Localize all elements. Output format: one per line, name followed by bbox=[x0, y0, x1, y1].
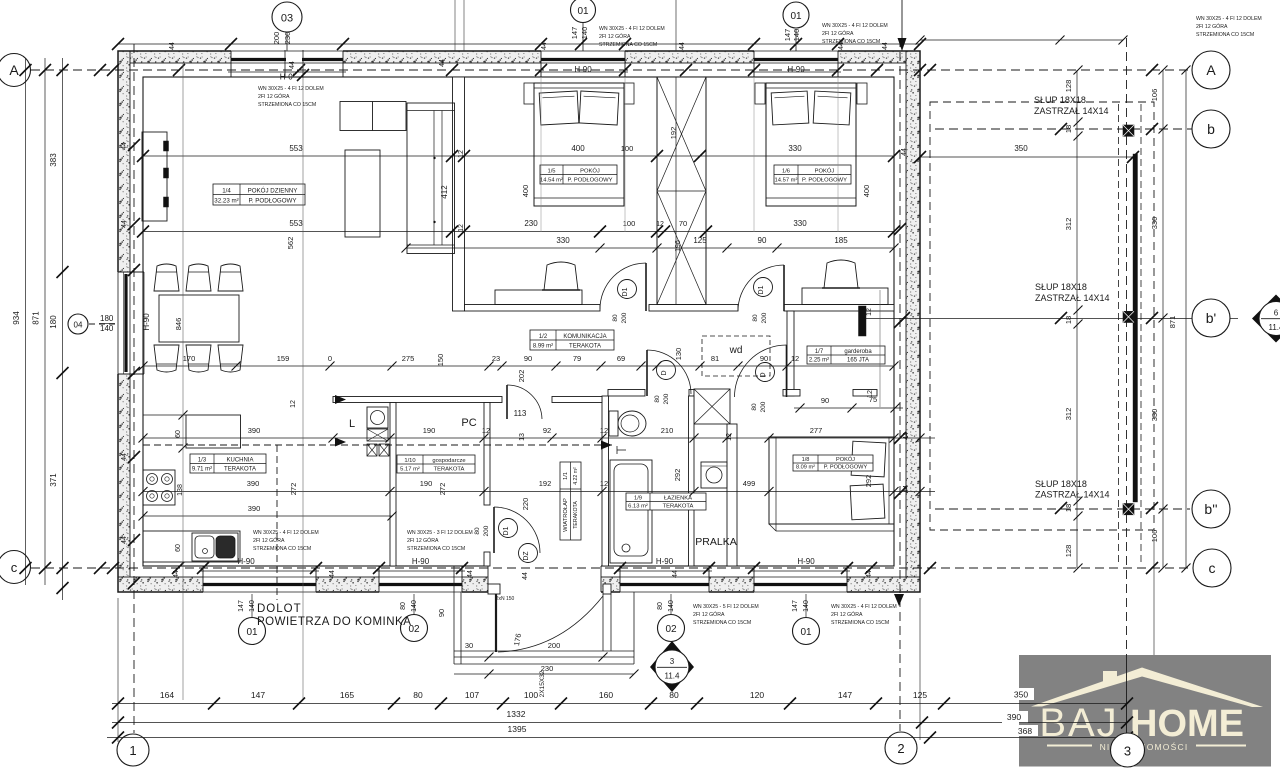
exterior wall stipple top band bbox=[118, 51, 920, 63]
svg-text:D1: D1 bbox=[622, 287, 629, 296]
svg-text:c: c bbox=[11, 560, 18, 575]
svg-text:330: 330 bbox=[793, 219, 807, 228]
svg-text:3: 3 bbox=[1124, 744, 1131, 759]
svg-text:12: 12 bbox=[482, 426, 490, 435]
kitchen east wall (gospodarcze west) bbox=[390, 403, 396, 567]
door D room 1/8 leaf and arc bbox=[786, 345, 788, 397]
svg-text:106: 106 bbox=[1150, 530, 1159, 543]
dim 350 porch top bbox=[920, 156, 1133, 158]
svg-text:STRZEMIONA CO 15CM: STRZEMIONA CO 15CM bbox=[693, 620, 751, 626]
svg-text:H-90: H-90 bbox=[787, 65, 805, 74]
svg-text:1332: 1332 bbox=[507, 709, 526, 719]
bottom dim row 3 bbox=[107, 737, 1140, 739]
svg-text:23: 23 bbox=[492, 354, 500, 363]
svg-text:2xN 150: 2xN 150 bbox=[496, 596, 515, 602]
svg-text:140: 140 bbox=[668, 600, 675, 612]
svg-text:b'': b'' bbox=[1204, 501, 1217, 517]
grid circle 3 bottom bbox=[1111, 733, 1145, 767]
svg-text:292: 292 bbox=[673, 469, 682, 482]
svg-text:2FI 12 GÓRA: 2FI 12 GÓRA bbox=[599, 33, 631, 40]
svg-text:192: 192 bbox=[669, 127, 678, 140]
svg-text:18: 18 bbox=[1064, 125, 1073, 133]
door D1 bedroom 1/6 leaf and arc bbox=[783, 265, 785, 311]
svg-text:100: 100 bbox=[524, 690, 538, 700]
kitchen sink double bowl bbox=[192, 533, 238, 561]
svg-text:125: 125 bbox=[913, 690, 927, 700]
room label 1/7 garderoba bbox=[807, 346, 885, 364]
bathroom east wall bbox=[689, 396, 695, 566]
svg-text:POKÓJ: POKÓJ bbox=[815, 168, 835, 175]
svg-text:4.22 m²: 4.22 m² bbox=[573, 467, 579, 485]
svg-text:553: 553 bbox=[289, 219, 303, 228]
svg-text:1/9: 1/9 bbox=[634, 496, 642, 502]
dim line y=516 kitchen bbox=[143, 515, 392, 517]
interior wall corridor north segment 2 bbox=[649, 305, 738, 312]
svg-text:1/2: 1/2 bbox=[539, 334, 548, 340]
bath tap bracket bbox=[616, 446, 618, 454]
svg-text:390: 390 bbox=[248, 426, 261, 435]
svg-text:WN 30X25 - 3 FI 12 DOLEM: WN 30X25 - 3 FI 12 DOLEM bbox=[407, 530, 473, 536]
svg-text:1/5: 1/5 bbox=[547, 169, 555, 175]
svg-text:390: 390 bbox=[248, 504, 261, 513]
svg-text:PC: PC bbox=[461, 417, 476, 429]
svg-text:934: 934 bbox=[12, 311, 21, 325]
svg-text:200: 200 bbox=[621, 312, 628, 323]
svg-text:SŁUP 18X18: SŁUP 18X18 bbox=[1035, 479, 1087, 489]
svg-text:292: 292 bbox=[864, 475, 873, 488]
svg-text:140: 140 bbox=[803, 600, 810, 612]
svg-text:12: 12 bbox=[791, 354, 799, 363]
window W3 H-90 bedroom 1/6 bbox=[754, 50, 838, 64]
svg-text:L: L bbox=[349, 418, 355, 430]
svg-text:HOME: HOME bbox=[1130, 703, 1244, 745]
svg-text:32.23 m²: 32.23 m² bbox=[214, 198, 238, 205]
svg-text:STRZEMIONA CO 15CM: STRZEMIONA CO 15CM bbox=[253, 546, 311, 552]
svg-text:80: 80 bbox=[612, 314, 619, 322]
svg-text:11.4: 11.4 bbox=[1269, 323, 1280, 332]
entry porch door jambs bbox=[488, 584, 500, 594]
gospodarcze east wall with door opening bbox=[484, 403, 490, 506]
svg-text:b: b bbox=[1207, 121, 1215, 137]
svg-text:18: 18 bbox=[1064, 316, 1073, 324]
dining chairs bottom row bbox=[154, 345, 179, 372]
svg-text:H-90: H-90 bbox=[656, 557, 674, 566]
svg-text:WN 30X25 - 4 FI 12 DOLEM: WN 30X25 - 4 FI 12 DOLEM bbox=[831, 604, 897, 610]
svg-text:147: 147 bbox=[838, 690, 852, 700]
svg-text:80: 80 bbox=[400, 602, 407, 610]
svg-text:44: 44 bbox=[289, 61, 296, 69]
svg-text:D1: D1 bbox=[758, 285, 765, 294]
svg-text:330: 330 bbox=[788, 144, 802, 153]
svg-text:D: D bbox=[661, 370, 668, 375]
svg-text:b': b' bbox=[1206, 310, 1216, 326]
svg-text:DZ: DZ bbox=[523, 551, 530, 561]
room label 1/8 POKOJ bbox=[793, 455, 873, 471]
ticks on axis b row bbox=[1055, 123, 1067, 135]
svg-text:272: 272 bbox=[438, 483, 447, 496]
porch dim line x=1186 bbox=[1185, 70, 1187, 568]
svg-text:330: 330 bbox=[1150, 217, 1159, 230]
svg-text:371: 371 bbox=[49, 473, 58, 487]
svg-text:80: 80 bbox=[654, 395, 661, 403]
svg-text:130: 130 bbox=[674, 348, 683, 361]
svg-text:12: 12 bbox=[458, 224, 465, 232]
svg-text:100: 100 bbox=[623, 219, 636, 228]
svg-text:60: 60 bbox=[175, 430, 182, 438]
svg-text:368: 368 bbox=[1018, 726, 1032, 736]
svg-text:70: 70 bbox=[679, 219, 687, 228]
svg-text:12: 12 bbox=[458, 150, 465, 158]
dim line y=248 corridor bbox=[406, 247, 894, 249]
bottom rows continue over logo bbox=[1019, 703, 1127, 705]
axis A horizontal dashed line bbox=[31, 69, 1192, 71]
svg-text:c: c bbox=[1209, 560, 1216, 576]
TV sideboard living room bbox=[142, 132, 167, 221]
grid circle A right bbox=[1192, 51, 1230, 89]
svg-text:350: 350 bbox=[1014, 144, 1028, 153]
svg-text:A: A bbox=[9, 62, 19, 78]
kitchen stove 4 burners bbox=[143, 470, 175, 505]
svg-text:80: 80 bbox=[669, 690, 679, 700]
svg-text:2FI 12 GÓRA: 2FI 12 GÓRA bbox=[258, 93, 290, 100]
svg-text:ŁAZIENKA: ŁAZIENKA bbox=[664, 496, 692, 502]
bathroom north wall segments bbox=[608, 390, 645, 397]
svg-text:STRZEMIONA CO 15CM: STRZEMIONA CO 15CM bbox=[822, 39, 880, 45]
svg-text:8.09 m²: 8.09 m² bbox=[796, 465, 815, 471]
svg-text:WN 30X25 - 4 FI 12 DOLEM: WN 30X25 - 4 FI 12 DOLEM bbox=[599, 26, 665, 32]
ticks on left wall axis bbox=[128, 139, 140, 151]
interior wall corridor north segment 1 bbox=[465, 305, 601, 312]
left dim line 934 bbox=[25, 58, 27, 585]
left dim line 871 bbox=[44, 58, 46, 585]
svg-text:180: 180 bbox=[49, 315, 58, 329]
axis 04 short dashed line bbox=[89, 323, 118, 325]
room label 1/1 WIATROLAP rotated bbox=[560, 462, 581, 540]
grid circle A left bbox=[0, 54, 31, 87]
svg-text:44: 44 bbox=[522, 572, 529, 580]
svg-text:TERAKOTA: TERAKOTA bbox=[663, 504, 694, 510]
svg-text:60: 60 bbox=[175, 544, 182, 552]
svg-text:STRZEMIONA CO 15CM: STRZEMIONA CO 15CM bbox=[599, 42, 657, 48]
desk bedroom 1/5 bbox=[495, 290, 582, 305]
fireplace air duct dashed line vertical bbox=[276, 445, 278, 600]
svg-text:H-90: H-90 bbox=[797, 557, 815, 566]
axis c horizontal dashed line bbox=[31, 567, 1195, 569]
svg-text:2FI 12 GÓRA: 2FI 12 GÓRA bbox=[1196, 23, 1228, 30]
svg-text:44: 44 bbox=[903, 485, 910, 493]
window edge extension lines bedrooms bbox=[540, 77, 542, 232]
svg-text:230: 230 bbox=[524, 219, 538, 228]
svg-text:03: 03 bbox=[281, 13, 293, 25]
svg-text:WN 30X25 - 4 FI 12 DOLEM: WN 30X25 - 4 FI 12 DOLEM bbox=[1196, 16, 1262, 22]
svg-text:TERAKOTA: TERAKOTA bbox=[573, 501, 579, 529]
svg-text:81: 81 bbox=[711, 354, 719, 363]
svg-text:90: 90 bbox=[760, 354, 768, 363]
svg-text:2X15X32: 2X15X32 bbox=[539, 670, 546, 697]
svg-text:12: 12 bbox=[290, 400, 297, 408]
marker diamond 6/11.4 at axis b' bbox=[1252, 295, 1280, 343]
svg-text:SŁUP 18X18: SŁUP 18X18 bbox=[1034, 95, 1086, 105]
svg-text:POKÓJ: POKÓJ bbox=[580, 168, 600, 175]
kitchen bottom counter with sink bbox=[143, 531, 240, 562]
axis 1 vertical dashed line bbox=[133, 44, 135, 733]
svg-text:STRZEMIONA CO 15CM: STRZEMIONA CO 15CM bbox=[1196, 32, 1254, 38]
wd dashed wardrobe box corridor bbox=[702, 336, 770, 376]
svg-text:1/6: 1/6 bbox=[782, 169, 790, 175]
room label 1/9 LAZIENKA bbox=[626, 493, 706, 510]
svg-text:44: 44 bbox=[882, 42, 889, 50]
nightstands bedroom 1/5 bbox=[524, 83, 534, 104]
svg-text:1/8: 1/8 bbox=[802, 457, 810, 463]
svg-text:871: 871 bbox=[32, 311, 41, 325]
grid circle 01 top (x=583) with stem bbox=[582, 23, 584, 51]
svg-text:44: 44 bbox=[903, 432, 910, 440]
grid circle b' right bbox=[1192, 299, 1230, 337]
svg-text:04: 04 bbox=[74, 321, 83, 330]
svg-text:140: 140 bbox=[411, 600, 418, 612]
svg-text:400: 400 bbox=[862, 185, 871, 198]
svg-text:200: 200 bbox=[761, 312, 768, 323]
svg-text:2FI 12 GÓRA: 2FI 12 GÓRA bbox=[831, 611, 863, 618]
svg-text:160: 160 bbox=[599, 690, 613, 700]
exterior wall outer face outline bbox=[118, 51, 920, 592]
svg-text:1/7: 1/7 bbox=[815, 349, 824, 355]
bathtub bathroom bbox=[610, 460, 652, 563]
svg-text:WN 30X25 - 4 FI 12 DOLEM: WN 30X25 - 4 FI 12 DOLEM bbox=[253, 530, 319, 536]
svg-text:01: 01 bbox=[800, 627, 812, 638]
room label 1/4 POKOJ DZIENNY bbox=[213, 184, 305, 205]
ticks on axis A right segment bbox=[924, 64, 936, 76]
svg-text:90: 90 bbox=[821, 396, 829, 405]
svg-text:D: D bbox=[760, 372, 767, 377]
bottom dim labels over logo bbox=[1008, 688, 1034, 700]
svg-text:330: 330 bbox=[1150, 409, 1159, 422]
ticks on axis c right segment bbox=[924, 562, 936, 574]
corner extension lines down bbox=[117, 598, 119, 742]
svg-text:P. PODŁOGOWY: P. PODŁOGOWY bbox=[248, 198, 296, 205]
window W4 H-90 left wall dining bbox=[117, 272, 131, 374]
svg-text:2FI 12 GÓRA: 2FI 12 GÓRA bbox=[822, 30, 854, 37]
svg-text:312: 312 bbox=[1064, 408, 1073, 421]
svg-text:383: 383 bbox=[49, 153, 58, 167]
svg-text:400: 400 bbox=[521, 185, 530, 198]
ventilation shaft with X near bathroom bbox=[694, 389, 730, 424]
svg-text:147: 147 bbox=[570, 27, 579, 40]
dining chairs top row bbox=[154, 264, 179, 291]
ticks on axis A near left wall bbox=[94, 64, 106, 76]
wall extension lines above top wall bbox=[454, 0, 456, 51]
logo roof chevron bbox=[1031, 668, 1263, 708]
window W6 H-90 bottom bbox=[379, 576, 462, 593]
interior wall corridor north segment 3 bbox=[784, 305, 894, 312]
dim line y=491.5 bbox=[143, 491, 935, 493]
svg-text:147: 147 bbox=[783, 29, 792, 42]
svg-text:A: A bbox=[1206, 62, 1216, 78]
svg-text:164: 164 bbox=[160, 690, 174, 700]
svg-text:POKÓJ: POKÓJ bbox=[836, 456, 855, 463]
sofa L-shaped living room bbox=[340, 102, 406, 131]
svg-text:POWIETRZA DO KOMINKA: POWIETRZA DO KOMINKA bbox=[257, 616, 411, 628]
exterior wall stipple bottom band bbox=[118, 577, 920, 592]
svg-text:44: 44 bbox=[169, 42, 176, 50]
entrance door opening in bottom wall bbox=[488, 563, 601, 594]
svg-text:200: 200 bbox=[483, 525, 490, 536]
svg-text:30: 30 bbox=[465, 641, 473, 650]
axis 2 vertical dashed line bbox=[899, 38, 901, 731]
svg-text:846: 846 bbox=[174, 318, 183, 331]
dim line y=407.5 garderoba bbox=[794, 407, 903, 409]
svg-text:350: 350 bbox=[1014, 690, 1028, 700]
ticks on axis c near left wall bbox=[94, 562, 106, 574]
logo chimney bbox=[1103, 671, 1117, 684]
svg-text:100: 100 bbox=[621, 144, 634, 153]
svg-text:80: 80 bbox=[657, 602, 664, 610]
dim line y=366 corridor/kitchen bbox=[143, 365, 894, 367]
svg-text:44: 44 bbox=[901, 148, 908, 156]
svg-text:18: 18 bbox=[1064, 504, 1073, 512]
svg-text:210: 210 bbox=[661, 426, 674, 435]
svg-text:412: 412 bbox=[440, 185, 449, 199]
svg-text:150: 150 bbox=[436, 354, 445, 367]
porch column square at axis b bbox=[1123, 125, 1134, 136]
svg-text:6.13 m²: 6.13 m² bbox=[628, 504, 648, 510]
svg-text:TERAKOTA: TERAKOTA bbox=[434, 467, 465, 473]
toilet bathroom bbox=[609, 411, 618, 436]
axis 3 vertical dashed line bbox=[1126, 38, 1128, 655]
grid circle c left bbox=[0, 551, 31, 584]
wall bedroom16/garderoba vertical bbox=[787, 311, 794, 396]
svg-text:128: 128 bbox=[1064, 80, 1073, 93]
svg-text:1: 1 bbox=[129, 743, 136, 758]
svg-text:80: 80 bbox=[752, 314, 759, 322]
svg-text:125: 125 bbox=[693, 236, 707, 245]
room label 1/10 gospodarcze bbox=[397, 455, 475, 473]
kitchen/wiatrolap north wall segments bbox=[333, 397, 502, 403]
svg-text:220: 220 bbox=[521, 498, 530, 511]
svg-text:01: 01 bbox=[246, 627, 258, 638]
svg-text:90: 90 bbox=[437, 609, 446, 617]
svg-text:44: 44 bbox=[672, 570, 679, 578]
long construction extension lines bbox=[182, 63, 184, 700]
svg-text:165 JTA: 165 JTA bbox=[847, 358, 869, 364]
marker diamond 3/11.4 bottom center bbox=[650, 641, 694, 692]
svg-text:190: 190 bbox=[423, 426, 436, 435]
svg-text:6: 6 bbox=[1274, 309, 1279, 318]
svg-text:H-90: H-90 bbox=[574, 65, 592, 74]
porch beam thick vertical bbox=[1133, 154, 1138, 502]
svg-text:2FI 12 GÓRA: 2FI 12 GÓRA bbox=[253, 537, 285, 544]
svg-text:WIATROŁAP: WIATROŁAP bbox=[563, 498, 569, 532]
svg-text:120: 120 bbox=[750, 690, 764, 700]
porch column square at axis b'' bbox=[1123, 504, 1134, 515]
svg-text:P. PODŁOGOWY: P. PODŁOGOWY bbox=[802, 178, 847, 184]
svg-text:44: 44 bbox=[439, 59, 446, 67]
exterior wall inner face outline bbox=[143, 77, 894, 566]
svg-text:147: 147 bbox=[238, 600, 245, 612]
grid circle 01 top (x=796) with stem bbox=[795, 29, 797, 51]
room label 1/2 KOMUNIKACJA bbox=[530, 330, 614, 350]
svg-text:44: 44 bbox=[467, 570, 474, 578]
svg-text:garderoba: garderoba bbox=[844, 349, 872, 355]
svg-text:wd: wd bbox=[729, 345, 743, 356]
lintel circle 02 (x=671) bbox=[670, 594, 672, 614]
svg-text:ZASTRZAŁ 14X14: ZASTRZAŁ 14X14 bbox=[1035, 293, 1110, 303]
porch dim line x=1163 bbox=[1162, 70, 1164, 568]
lintel circle 01 (x=252) bbox=[251, 594, 253, 617]
bed bedroom 1/6 bbox=[766, 83, 856, 206]
svg-text:562: 562 bbox=[286, 237, 295, 250]
svg-text:12: 12 bbox=[867, 390, 874, 398]
svg-text:2FI 12 GÓRA: 2FI 12 GÓRA bbox=[407, 537, 439, 544]
axis b horizontal dashed line bbox=[935, 128, 1192, 130]
logo gray panel bbox=[1019, 655, 1271, 767]
svg-text:230: 230 bbox=[283, 32, 292, 45]
room label 1/6 POKOJ bbox=[774, 165, 851, 184]
room label 1/5 POKOJ bbox=[540, 165, 617, 184]
grid circle c right bbox=[1193, 549, 1231, 587]
svg-text:STRZEMIONA CO 15CM: STRZEMIONA CO 15CM bbox=[831, 620, 889, 626]
porch column square at axis b' bbox=[1123, 311, 1134, 322]
desk bedroom 1/6 bbox=[802, 288, 888, 305]
kitchen counter top run bbox=[186, 415, 241, 448]
svg-text:499: 499 bbox=[743, 479, 756, 488]
svg-text:ZASTRZAŁ 14X14: ZASTRZAŁ 14X14 bbox=[1035, 490, 1110, 500]
svg-text:WN 30X25 - 5 FI 12 DOLEM: WN 30X25 - 5 FI 12 DOLEM bbox=[693, 604, 759, 610]
bed room 1/8 horizontal bbox=[769, 437, 894, 524]
chair bedroom 1/6 bbox=[824, 260, 858, 288]
svg-text:159: 159 bbox=[277, 354, 290, 363]
svg-text:180: 180 bbox=[100, 314, 114, 323]
chimney shaft between bedrooms bbox=[657, 77, 706, 305]
grid circle 03 top with stem bbox=[286, 32, 288, 51]
svg-text:PRALKA: PRALKA bbox=[695, 536, 736, 548]
svg-text:147: 147 bbox=[251, 690, 265, 700]
svg-text:80: 80 bbox=[474, 527, 481, 535]
svg-text:02: 02 bbox=[665, 624, 677, 635]
svg-text:12: 12 bbox=[656, 221, 664, 228]
svg-text:80: 80 bbox=[413, 690, 423, 700]
svg-text:P. PODŁOGOWY: P. PODŁOGOWY bbox=[568, 178, 613, 184]
svg-text:90: 90 bbox=[524, 354, 532, 363]
entry porch outer lines bbox=[453, 566, 455, 664]
interior wall living/bedroom V1 bbox=[453, 77, 465, 311]
svg-text:200: 200 bbox=[548, 641, 561, 650]
top dim line y=44 bbox=[118, 43, 920, 45]
svg-text:107: 107 bbox=[465, 690, 479, 700]
lintel circle 02 (x=414) bbox=[413, 594, 415, 614]
svg-text:277: 277 bbox=[810, 426, 823, 435]
porch dashed outline bbox=[930, 102, 1154, 530]
garderoba south wall stubs bbox=[783, 390, 800, 397]
svg-text:01: 01 bbox=[790, 11, 802, 22]
washing machine PRALKA niche bbox=[701, 462, 727, 488]
dim line y=438 bbox=[143, 437, 935, 439]
svg-text:553: 553 bbox=[289, 144, 303, 153]
svg-text:140: 140 bbox=[100, 324, 114, 333]
svg-text:79: 79 bbox=[573, 354, 581, 363]
svg-text:106: 106 bbox=[1150, 89, 1159, 102]
ticks on axis b'' row bbox=[1055, 502, 1067, 514]
svg-text:1/1: 1/1 bbox=[563, 472, 569, 480]
svg-text:165: 165 bbox=[340, 690, 354, 700]
svg-text:2.25 m²: 2.25 m² bbox=[809, 358, 829, 364]
svg-text:200: 200 bbox=[663, 393, 670, 404]
window W2 H-90 bedroom 1/5 bbox=[541, 50, 625, 64]
svg-text:44: 44 bbox=[679, 42, 686, 50]
svg-text:WN 30X25 - 4 FI 12 DOLEM: WN 30X25 - 4 FI 12 DOLEM bbox=[258, 86, 324, 92]
svg-text:01: 01 bbox=[577, 6, 589, 17]
svg-text:190: 190 bbox=[420, 479, 433, 488]
